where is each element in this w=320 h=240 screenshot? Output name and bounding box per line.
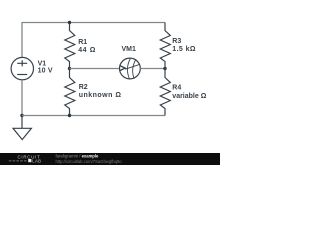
- svg-text:R3: R3: [172, 38, 181, 45]
- wire left vertical lower (V1 bottom lead): [21, 80, 23, 116]
- resistor R2 unknown: [65, 69, 75, 116]
- wire mid horizontal left (to VM1): [70, 68, 120, 70]
- svg-text:R2: R2: [79, 84, 88, 91]
- svg-text:variable Ω: variable Ω: [172, 93, 206, 100]
- wire mid horizontal right (VM1 to R3/R4): [140, 68, 165, 70]
- svg-text:VM1: VM1: [122, 46, 137, 53]
- node junction R2 bottom: [68, 114, 71, 117]
- ground: [13, 116, 31, 140]
- node junction at V1 bottom / ground: [20, 114, 23, 117]
- svg-text:R1: R1: [78, 39, 87, 46]
- svg-text:http://circuitlab.com/7SaGbwgf: http://circuitlab.com/7SaGbwgfbq9o: [56, 159, 123, 164]
- svg-text:unknown Ω: unknown Ω: [79, 92, 122, 99]
- wire top horizontal: [22, 22, 165, 24]
- svg-text:10 V: 10 V: [38, 68, 53, 75]
- node junction R3/R4/VM1: [163, 67, 166, 70]
- wire bottom horizontal: [22, 115, 165, 117]
- node junction R1/R2 mid: [68, 67, 71, 70]
- svg-text:44 Ω: 44 Ω: [78, 47, 96, 54]
- resistor R3 1.5k: [160, 23, 170, 69]
- voltmeter VM1: [119, 58, 140, 79]
- voltage source V1: [11, 57, 33, 79]
- svg-text:V1: V1: [38, 60, 47, 67]
- svg-text:LAB: LAB: [32, 158, 41, 163]
- wire left vertical upper (V1 top lead): [21, 22, 23, 57]
- CircuitLab logo: [9, 155, 42, 164]
- resistor R4 variable: [160, 69, 170, 116]
- svg-text:1.5 kΩ: 1.5 kΩ: [172, 46, 196, 53]
- resistor R1 44 ohm: [65, 23, 75, 69]
- footer black bar: [0, 153, 220, 165]
- node junction R1 top: [68, 21, 71, 24]
- svg-text:R4: R4: [172, 84, 181, 91]
